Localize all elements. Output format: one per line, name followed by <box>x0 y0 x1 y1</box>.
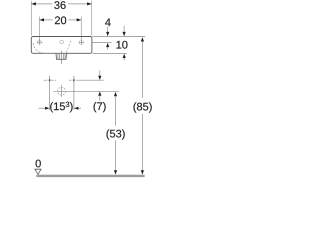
dim 10 lower stem <box>123 58 125 60</box>
fixing hole cross left vertical / dim 15.3 left extension <box>49 76 51 110</box>
dim 10 down arrowhead <box>123 32 126 36</box>
dim 36 label <box>54 1 65 9</box>
dim 4 upper stem <box>107 27 109 32</box>
drain fitting inner line 3 <box>62 54 64 59</box>
dim 15.3 left arrowhead <box>45 107 49 110</box>
fixing hole cross right horizontal / holes axis line <box>69 79 71 81</box>
dim 53 down arrowhead <box>114 170 117 174</box>
dim 36 line left segment <box>31 3 52 5</box>
tap hole cross left <box>37 39 43 45</box>
dim 20 right extension line <box>80 17 82 41</box>
dim 20 line left segment <box>39 19 52 21</box>
dim 85 label <box>134 102 152 112</box>
dim 53 label <box>107 129 125 139</box>
tap hole left dashed circle <box>38 40 42 44</box>
dim 7 up arrowhead <box>98 92 101 96</box>
dim 10 label <box>117 41 128 49</box>
overflow knockout circle <box>60 40 64 44</box>
dim 53 line lower segment <box>115 140 117 171</box>
dim 36 right arrowhead <box>87 2 91 5</box>
datum triangle <box>35 169 41 174</box>
dim 7 lower stem <box>99 96 101 101</box>
bowl hidden contour right slant <box>66 39 71 52</box>
tap hole right dashed circle <box>79 40 83 44</box>
dim 10 up arrowhead <box>123 54 126 58</box>
tap hole cross right <box>79 40 85 46</box>
dim 36 line right segment <box>68 3 92 5</box>
fixing hole cross right center mark <box>73 79 75 81</box>
fixing hole cross right vertical / dim 15.3 right extension <box>73 76 75 110</box>
dim 20 left extension line <box>38 17 40 41</box>
dim 20 line right segment <box>68 19 81 21</box>
dim 20 left arrowhead <box>40 18 44 21</box>
drain fitting inner line 4 <box>64 54 66 59</box>
dim 4 down arrowhead <box>106 32 109 36</box>
dim 20 label <box>55 16 66 24</box>
dim 36 right extension line <box>91 1 93 36</box>
dim 85 up arrowhead <box>141 37 144 41</box>
dim 15.3 right arrow tail <box>78 107 81 109</box>
dim 15.3 label <box>50 102 72 113</box>
fixing hole cross left center mark <box>49 79 51 81</box>
drain fitting inner line 2 <box>59 54 61 59</box>
dim 36 left extension line <box>30 1 32 36</box>
dim 15.3 right arrowhead <box>74 107 78 110</box>
dim 85 down arrowhead <box>141 170 144 174</box>
dim 7 upper stem <box>99 70 101 76</box>
dim 15.3 left arrow tail <box>39 107 46 109</box>
dim 7 down arrowhead <box>98 76 101 80</box>
tap deck line (4 below top) <box>92 42 111 44</box>
dim 10 upper stem <box>123 26 125 33</box>
basin top extension line to right <box>92 36 145 38</box>
fixing hole cross left horizontal <box>44 79 56 81</box>
dim 85 line lower segment <box>141 114 143 171</box>
drain trap vertical centerline <box>61 85 63 97</box>
dim 20 right arrowhead <box>77 18 81 21</box>
dim 53 line upper segment <box>115 96 117 125</box>
dim 4 lower stem <box>107 47 109 49</box>
dim 7 label <box>94 102 106 112</box>
drain centerline (front view) <box>61 51 63 64</box>
drain trap dashed circle <box>58 87 66 95</box>
dim 53 up arrowhead <box>114 92 117 96</box>
drain fitting below basin <box>56 54 67 60</box>
dim 36 left arrowhead <box>32 2 36 5</box>
dim 4 label <box>105 19 111 27</box>
datum 0 label <box>36 160 41 168</box>
basin bottom extension line to right <box>92 53 127 55</box>
dim 4 up arrowhead <box>106 43 109 47</box>
bowl hidden contour left arc <box>33 43 58 54</box>
drain fitting inner line 1 <box>57 54 59 59</box>
washbasin outline (front view) <box>31 37 92 54</box>
drain trap axis line <box>53 90 119 92</box>
dim 85 line upper segment <box>141 42 143 98</box>
floor line <box>36 175 144 177</box>
